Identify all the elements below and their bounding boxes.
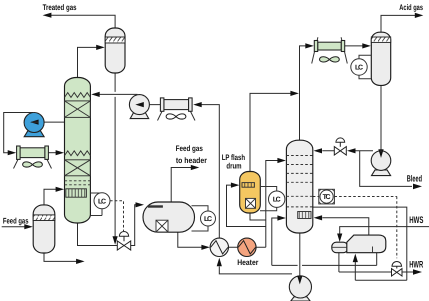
svg-text:Treated gas: Treated gas [43, 3, 77, 12]
svg-text:TC: TC [323, 194, 331, 201]
svg-text:LC: LC [98, 198, 106, 205]
svg-text:HWS: HWS [409, 215, 423, 226]
svg-text:to header: to header [176, 156, 207, 165]
svg-text:Acid gas: Acid gas [399, 3, 423, 12]
svg-text:Feed gas: Feed gas [3, 217, 29, 226]
svg-text:Bleed: Bleed [407, 173, 422, 183]
svg-text:drum: drum [226, 161, 241, 170]
svg-text:HWR: HWR [409, 260, 423, 271]
svg-text:Heater: Heater [237, 258, 258, 267]
svg-text:LC: LC [355, 65, 363, 72]
svg-text:LC: LC [273, 197, 281, 204]
svg-text:Feed gas: Feed gas [176, 144, 204, 153]
svg-text:LC: LC [204, 216, 212, 223]
